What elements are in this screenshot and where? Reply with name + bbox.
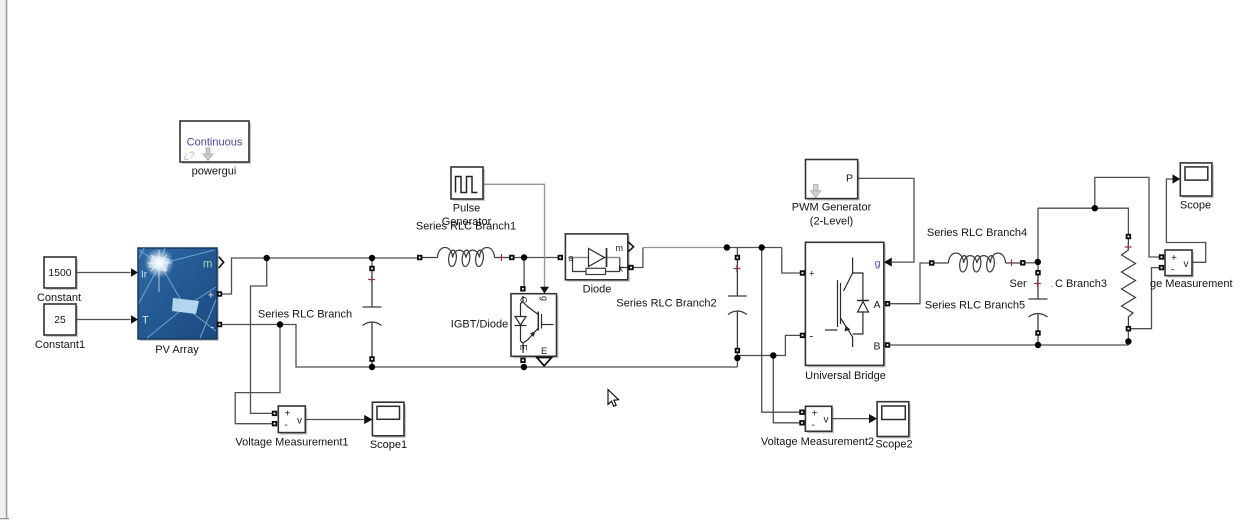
svg-text:1500: 1500 [49, 268, 72, 279]
svg-text:PV Array: PV Array [155, 344, 199, 356]
svg-text:v: v [1184, 259, 1189, 270]
svg-text:Series RLC Branch: Series RLC Branch [258, 308, 352, 320]
svg-text:¿?: ¿? [183, 150, 195, 161]
svg-text:T: T [142, 315, 149, 327]
svg-text:g: g [540, 296, 550, 301]
svg-text:E: E [519, 345, 529, 351]
svg-text:Scope1: Scope1 [370, 439, 407, 451]
svg-text:m: m [203, 259, 213, 271]
svg-text:Series RLC Branch5: Series RLC Branch5 [925, 299, 1025, 311]
svg-text:(2-Level): (2-Level) [810, 215, 853, 227]
svg-text:C: C [519, 297, 529, 304]
svg-text:g: g [875, 257, 881, 269]
svg-text:Scope2: Scope2 [875, 438, 912, 450]
svg-text:-: - [210, 322, 214, 334]
svg-text:Series RLC Branch2: Series RLC Branch2 [616, 297, 716, 309]
svg-text:-: - [812, 420, 815, 431]
svg-text:Series RLC Branch4: Series RLC Branch4 [927, 227, 1027, 239]
svg-text:a: a [569, 253, 574, 263]
svg-text:Constant1: Constant1 [35, 339, 85, 351]
svg-text:+: + [208, 289, 214, 301]
svg-text:Constant: Constant [37, 292, 81, 304]
svg-text:PWM Generator: PWM Generator [792, 202, 872, 214]
svg-text:IGBT/Diode: IGBT/Diode [451, 319, 508, 331]
svg-text:Voltage Measurement1: Voltage Measurement1 [235, 436, 348, 448]
svg-text:Continuous: Continuous [187, 136, 243, 148]
svg-text:Pulse: Pulse [453, 202, 481, 214]
svg-text:+: + [809, 269, 815, 280]
svg-text:v: v [824, 414, 829, 425]
svg-text:ge Measurement: ge Measurement [1150, 278, 1233, 290]
svg-text:Voltage Measurement2: Voltage Measurement2 [761, 436, 874, 448]
svg-text:Series RLC Branch1: Series RLC Branch1 [416, 221, 516, 233]
svg-text:Ir: Ir [141, 269, 148, 280]
svg-text:v: v [297, 415, 302, 426]
svg-text:+: + [812, 409, 818, 420]
svg-text:powergui: powergui [192, 166, 237, 178]
svg-text:Diode: Diode [583, 283, 612, 295]
svg-text:C Branch3: C Branch3 [1055, 278, 1107, 290]
svg-text:B: B [873, 340, 880, 352]
svg-text:25: 25 [54, 315, 66, 326]
svg-text:E: E [541, 346, 547, 357]
svg-text:m: m [616, 243, 624, 253]
svg-text:-: - [285, 420, 288, 431]
svg-text:-: - [810, 331, 814, 343]
svg-text:-: - [1171, 265, 1174, 276]
svg-text:+: + [1171, 253, 1177, 264]
svg-text:.: . [1051, 278, 1054, 290]
svg-text:+: + [285, 409, 291, 420]
svg-text:Ser: Ser [1010, 278, 1027, 290]
svg-text:Universal Bridge: Universal Bridge [805, 370, 886, 382]
svg-text:Scope: Scope [1180, 199, 1211, 211]
svg-text:k: k [619, 263, 624, 273]
svg-text:P: P [846, 173, 853, 185]
svg-text:A: A [873, 299, 880, 311]
